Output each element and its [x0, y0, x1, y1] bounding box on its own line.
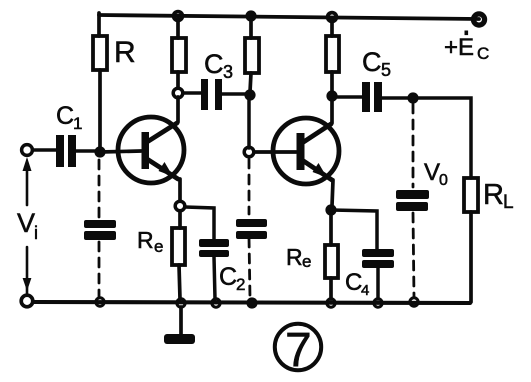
wire Re1 bottom stem: [179, 265, 180, 299]
svg-text:C: C: [204, 49, 224, 79]
figure number 7: [275, 324, 321, 370]
wire C5 to output node: [382, 96, 413, 100]
label C3: [204, 49, 233, 82]
wire R4 bottom stem: [330, 72, 334, 92]
wire Q2 emitter down: [332, 180, 333, 206]
svg-text:+E: +E: [444, 34, 474, 61]
wire Vi lower arrow: [26, 247, 29, 294]
wire dashed V0 cap top: [412, 104, 415, 187]
label C2: [219, 263, 245, 294]
node emitter Q2: [325, 204, 336, 215]
capacitor C4: [362, 249, 394, 268]
wire Re2 bottom stem: [329, 278, 333, 299]
terminal input: [22, 145, 33, 156]
capacitor C2: [199, 239, 229, 257]
resistor Re2: [325, 245, 338, 278]
wire node to C5: [337, 95, 362, 99]
svg-text:L: L: [503, 192, 514, 213]
label +Ec: [444, 31, 489, 64]
wire C2 bottom stem: [214, 257, 215, 299]
terminal bottom-left: [21, 295, 33, 307]
wire R1 top stem: [97, 13, 101, 36]
wire Q1 emitter down: [178, 179, 182, 201]
wire Vi upper arrow: [26, 165, 29, 205]
wire dashed interstage stray cap bottom: [249, 238, 250, 298]
wire input to C1: [33, 148, 56, 152]
wire R4 top stem: [330, 19, 334, 36]
node bottom rail x181: [177, 299, 185, 307]
node bottom rail x414: [410, 298, 418, 306]
transistor Q2: [273, 118, 339, 184]
label Re2: [286, 244, 311, 271]
wire Re2 top stem: [329, 215, 333, 245]
svg-text:C: C: [219, 263, 237, 291]
wire bottom rail: [33, 302, 470, 303]
label C4: [345, 269, 369, 299]
capacitor V0 (load stray): [396, 190, 429, 211]
svg-text:e: e: [302, 252, 311, 271]
ground: [164, 334, 195, 344]
wire base node to Q1: [100, 151, 141, 152]
node emitter Q1: [175, 201, 185, 211]
resistor R2: [172, 38, 186, 72]
svg-text:e: e: [154, 237, 163, 256]
wire emitter node to C4: [331, 210, 377, 250]
node bottom rail x100: [96, 298, 104, 306]
wire R3 bottom stem: [250, 73, 251, 92]
label C5: [362, 47, 391, 80]
wire C1 to base node: [75, 149, 97, 153]
wire Q1 collector up: [176, 97, 180, 122]
wire node to C3: [183, 91, 201, 95]
node bottom rail x331: [327, 299, 335, 307]
terminal +Ec: [473, 14, 484, 25]
wire R3 top stem: [249, 17, 253, 38]
capacitor C3: [201, 79, 222, 110]
svg-text:1: 1: [73, 114, 82, 133]
svg-text:3: 3: [223, 62, 233, 82]
wire dashed base stray cap bottom: [98, 242, 101, 297]
capacitor C5: [362, 82, 382, 112]
resistor Re1: [172, 228, 185, 265]
wire R1 bottom to base node: [98, 70, 102, 152]
node base Q1: [94, 146, 105, 157]
node bottom rail x377: [374, 299, 382, 307]
capacitor stray (interstage): [236, 219, 267, 239]
svg-text:R: R: [286, 244, 303, 270]
node rail x332: [328, 13, 337, 22]
wire C4 bottom stem: [376, 268, 380, 299]
wire node down to Q2 base node: [247, 95, 251, 148]
wire dashed base stray cap top: [98, 160, 101, 218]
wire base node to Q2: [254, 150, 296, 154]
label RL: [483, 179, 514, 213]
node collector Q2: [326, 90, 337, 101]
wire Re1 top stem: [178, 211, 182, 228]
resistor R: [93, 36, 107, 70]
wire output node to RL top: [413, 98, 471, 178]
wire C3 to node: [222, 92, 246, 96]
wire RL bottom to rail: [469, 212, 473, 302]
resistor R3: [245, 38, 259, 73]
svg-text:C: C: [477, 44, 489, 63]
node output: [407, 92, 418, 103]
svg-text:5: 5: [381, 60, 391, 80]
svg-text:2: 2: [236, 275, 245, 294]
svg-text:0: 0: [439, 172, 448, 189]
resistor R4: [326, 36, 339, 72]
wire R2 bottom stem: [176, 72, 180, 88]
label V0: [424, 159, 448, 189]
node bottom rail x215: [212, 299, 220, 307]
wire Q2 collector up: [330, 100, 334, 123]
svg-text:R: R: [483, 179, 504, 211]
svg-text:C: C: [345, 269, 362, 296]
wire R2 top stem: [176, 18, 180, 38]
svg-text:i: i: [34, 223, 38, 243]
node bottom rail x252: [246, 297, 257, 308]
svg-text:V: V: [424, 159, 440, 186]
node base Q2: [244, 147, 254, 157]
label Vi: [17, 208, 38, 243]
transistor Q1: [118, 117, 184, 183]
node rail x252: [245, 10, 256, 21]
wire top supply rail: [99, 15, 479, 19]
svg-text:R: R: [114, 36, 136, 69]
svg-text:C: C: [362, 47, 382, 77]
svg-text:V: V: [17, 208, 35, 238]
capacitor stray (base): [84, 220, 116, 240]
label Re1: [137, 227, 163, 256]
wire emitter node to C2: [185, 207, 214, 239]
resistor RL: [464, 178, 478, 212]
svg-text:4: 4: [361, 282, 369, 299]
capacitor C1: [56, 135, 76, 167]
wire dashed interstage stray cap top: [248, 159, 251, 214]
svg-text:R: R: [137, 227, 154, 253]
node C3 right: [244, 89, 255, 100]
label C1: [56, 102, 82, 133]
svg-text:7: 7: [285, 324, 312, 377]
svg-text:C: C: [56, 102, 74, 130]
wire ground stem: [179, 307, 183, 334]
wire dashed V0 cap bottom: [413, 213, 414, 297]
node collector Q1: [173, 88, 183, 98]
node rail x178: [174, 12, 183, 21]
